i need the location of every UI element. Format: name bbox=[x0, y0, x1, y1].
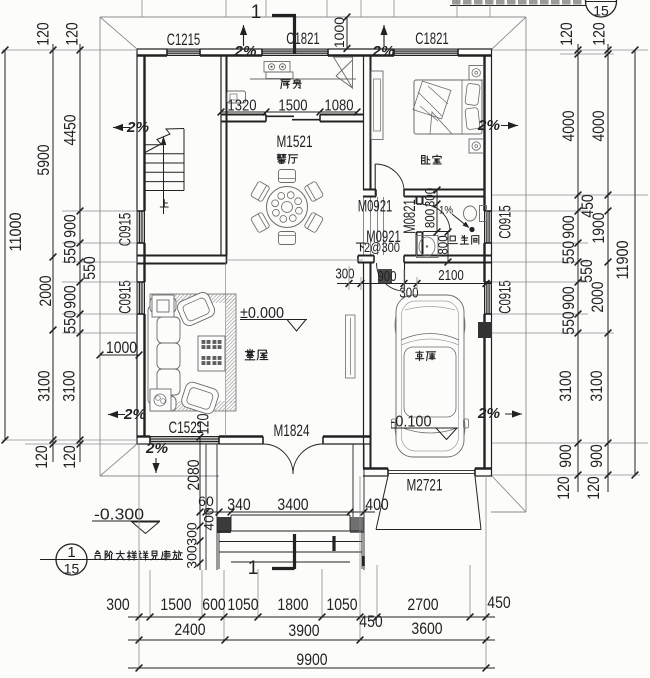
west eave dimension 1000 bbox=[97, 339, 143, 359]
svg-text:15: 15 bbox=[64, 561, 80, 577]
svg-text:2%: 2% bbox=[477, 406, 500, 422]
svg-text:2080: 2080 bbox=[185, 459, 203, 490]
svg-text:M1824: M1824 bbox=[274, 422, 310, 440]
svg-text:9900: 9900 bbox=[296, 651, 327, 669]
left detail dimension chain bbox=[60, 22, 99, 468]
svg-text:1000: 1000 bbox=[332, 17, 347, 48]
roof eave overhang outline bbox=[100, 17, 526, 512]
svg-text:300: 300 bbox=[184, 522, 199, 545]
porch dimension 60/340/3400/400 bbox=[198, 494, 388, 516]
room label 厨房 bbox=[281, 79, 301, 89]
svg-text:550: 550 bbox=[578, 259, 596, 282]
tv bench bbox=[346, 315, 356, 378]
label C1821 bedroom bbox=[415, 30, 449, 48]
svg-text:2%: 2% bbox=[371, 44, 394, 60]
window C1821 kitchen bbox=[262, 49, 328, 56]
svg-text:M0921: M0921 bbox=[358, 197, 393, 215]
column porch right bbox=[350, 517, 364, 533]
svg-text:120: 120 bbox=[61, 445, 79, 468]
plant table bbox=[150, 389, 171, 411]
left dimension chain 11000 bbox=[2, 47, 25, 444]
svg-text:550: 550 bbox=[81, 256, 99, 279]
label M1521 bbox=[277, 133, 313, 151]
slope 2% kitchen roof bbox=[233, 25, 256, 60]
floor boundary line living-dining bbox=[227, 259, 364, 261]
living room rug bbox=[150, 294, 236, 411]
svg-text:5900: 5900 bbox=[35, 144, 53, 175]
label 下2@300 bbox=[356, 240, 400, 255]
svg-text:550: 550 bbox=[61, 310, 79, 333]
dining table with six chairs bbox=[250, 170, 323, 245]
svg-text:C0915: C0915 bbox=[116, 213, 134, 247]
window C0915 west lower bbox=[137, 282, 145, 314]
svg-text:M2721: M2721 bbox=[407, 476, 443, 494]
svg-text:3900: 3900 bbox=[288, 622, 319, 640]
top extension line stubs bbox=[142, 0, 490, 17]
level mark -0.300 terrace bbox=[92, 507, 160, 534]
garage south wall bbox=[363, 469, 492, 477]
room label 餐厅 bbox=[277, 154, 297, 163]
north eave dimension 1000 bbox=[332, 14, 351, 52]
svg-text:1050: 1050 bbox=[326, 596, 357, 614]
svg-text:120: 120 bbox=[33, 445, 51, 468]
svg-text:C1821: C1821 bbox=[286, 30, 320, 48]
svg-text:M0821: M0821 bbox=[401, 199, 419, 234]
door M0921 bedroom leaf and swing bbox=[375, 164, 404, 195]
label C0915 west lower bbox=[116, 280, 134, 314]
kitchen window dimension 1320/1500/1080 bbox=[218, 98, 361, 116]
left dimension chain 5900/2000/3100 bbox=[33, 22, 57, 468]
kitchen cooktop bbox=[264, 62, 293, 79]
svg-text:1320: 1320 bbox=[227, 98, 257, 115]
bottom dimension row 300/1500/600/1050/1800/1050/450/2700/450 bbox=[106, 594, 510, 631]
column east wall bbox=[478, 322, 492, 338]
svg-text:3100: 3100 bbox=[60, 370, 78, 401]
svg-text:1800: 1800 bbox=[277, 596, 308, 614]
slope 2% east garage bbox=[477, 406, 522, 422]
garage driveway ramp bbox=[376, 476, 481, 530]
svg-text:11000: 11000 bbox=[7, 213, 25, 252]
svg-text:900: 900 bbox=[560, 286, 578, 309]
bedroom south wall bbox=[363, 190, 485, 197]
label M0821 rotated bbox=[401, 199, 419, 234]
svg-text:120: 120 bbox=[34, 22, 52, 45]
label C1821 kitchen bbox=[286, 30, 320, 48]
west exterior wall bbox=[137, 49, 145, 444]
svg-text:120: 120 bbox=[63, 22, 81, 45]
label C1215 bbox=[167, 31, 201, 49]
window C1215 bbox=[167, 49, 200, 56]
room label 堂屋 bbox=[245, 349, 268, 360]
window C1521 bbox=[150, 437, 219, 445]
eave line at garage south bbox=[491, 511, 526, 513]
level mark ±0.000 bbox=[240, 305, 307, 331]
svg-text:2400: 2400 bbox=[174, 621, 205, 639]
slope 2% west lower bbox=[108, 407, 146, 423]
kitchen corner cabinet bbox=[334, 57, 353, 88]
slope 2% bedroom roof bbox=[371, 25, 394, 60]
svg-text:1: 1 bbox=[248, 558, 259, 579]
window C0915 west upper bbox=[137, 211, 145, 243]
car in garage bbox=[392, 295, 469, 457]
svg-text:C1215: C1215 bbox=[167, 31, 201, 49]
porch steps bbox=[219, 515, 362, 569]
refrigerator bbox=[227, 91, 246, 103]
svg-text:900: 900 bbox=[61, 214, 79, 237]
section mark 1 bottom bbox=[248, 534, 334, 579]
svg-text:550: 550 bbox=[560, 241, 578, 264]
staircase with up arrow bbox=[145, 129, 184, 215]
window C0915 east garage bbox=[485, 282, 492, 314]
svg-text:C0915: C0915 bbox=[116, 280, 134, 314]
svg-text:450: 450 bbox=[359, 613, 382, 631]
bottom dimension row 2400/3900/3600 bbox=[128, 620, 495, 644]
column porch left bbox=[217, 517, 231, 533]
bathroom dimensions 300/800/800 bbox=[422, 187, 452, 266]
svg-text:1500: 1500 bbox=[160, 596, 191, 614]
svg-text:3400: 3400 bbox=[277, 496, 308, 514]
note 台阶大样详见建施 bbox=[95, 550, 182, 560]
label M1824 bbox=[274, 422, 310, 440]
stairhall south wall bbox=[137, 256, 227, 264]
section mark 1 top bbox=[251, 2, 296, 54]
svg-text:2%: 2% bbox=[145, 441, 168, 457]
right dimension chain 4000/1900/2000/3100/900 bbox=[585, 22, 612, 499]
svg-text:1500: 1500 bbox=[278, 98, 308, 115]
svg-text:60: 60 bbox=[198, 494, 214, 509]
svg-text:300: 300 bbox=[184, 545, 199, 568]
svg-text:300: 300 bbox=[422, 188, 438, 207]
svg-text:1080: 1080 bbox=[324, 98, 354, 115]
porch side walls bbox=[206, 444, 364, 570]
sliding door M1521 bbox=[266, 116, 320, 119]
svg-text:120: 120 bbox=[590, 22, 608, 45]
svg-text:300: 300 bbox=[399, 286, 418, 302]
kitchen south wall bbox=[221, 115, 363, 122]
interior wall stairhall-east bbox=[221, 56, 227, 256]
svg-text:2%: 2% bbox=[123, 407, 146, 423]
svg-text:3600: 3600 bbox=[411, 620, 442, 638]
hall/garage dimension 300/900/300/2100 bbox=[335, 267, 492, 302]
svg-text:340: 340 bbox=[227, 496, 250, 514]
north exterior wall bbox=[137, 49, 492, 56]
toilet bbox=[464, 206, 487, 222]
left margin extension lines bbox=[2, 50, 137, 444]
label C0915 east bath bbox=[496, 205, 514, 239]
detail mark circle 2/15 top right bbox=[450, 0, 617, 19]
bathroom west wall bbox=[417, 197, 423, 255]
svg-text:1: 1 bbox=[251, 2, 262, 23]
door M0821 bathroom leaf and swing bbox=[423, 205, 450, 232]
slope 2% south entry bbox=[145, 441, 168, 473]
upper floor projection line bbox=[225, 264, 227, 437]
coffee table bbox=[198, 336, 225, 371]
svg-text:1%: 1% bbox=[439, 204, 453, 216]
svg-text:400: 400 bbox=[201, 507, 216, 530]
garage north wall bbox=[358, 256, 492, 263]
garage west wall bbox=[364, 263, 371, 469]
room label 卧室 bbox=[422, 155, 442, 164]
svg-text:3100: 3100 bbox=[557, 370, 575, 401]
label C0915 west upper bbox=[116, 213, 134, 247]
porch left dimension 2080/400/300/300 bbox=[184, 434, 216, 570]
label M2721 bbox=[407, 476, 443, 494]
detail mark circle 1/15 bbox=[40, 544, 183, 577]
svg-text:1050: 1050 bbox=[227, 596, 258, 614]
svg-text:800: 800 bbox=[422, 209, 438, 228]
svg-text:2000: 2000 bbox=[589, 281, 607, 312]
svg-text:550: 550 bbox=[61, 240, 79, 263]
svg-text:15: 15 bbox=[593, 3, 609, 19]
section line thick dash at porch right bbox=[362, 556, 365, 566]
label M0921 bedroom bbox=[358, 197, 393, 215]
sofa bbox=[148, 297, 180, 411]
column garage northwest bbox=[378, 269, 392, 283]
corner table with lamp bbox=[152, 295, 174, 317]
svg-text:900: 900 bbox=[560, 215, 578, 238]
door M0921 hall-to-garage leaf and swing bbox=[377, 263, 405, 291]
window C1821 bedroom bbox=[394, 49, 458, 56]
garage door M2721 opening threshold bbox=[388, 471, 475, 474]
hall floor step lines 下2@300 bbox=[364, 197, 384, 255]
svg-text:2%: 2% bbox=[126, 120, 149, 136]
svg-text:800: 800 bbox=[435, 235, 451, 254]
svg-text:300: 300 bbox=[106, 596, 129, 614]
svg-text:C0915: C0915 bbox=[496, 280, 514, 314]
svg-text:2100: 2100 bbox=[438, 268, 464, 284]
hall dim extension bbox=[349, 266, 417, 290]
svg-text:C1821: C1821 bbox=[415, 30, 449, 48]
washbasin bbox=[417, 236, 439, 258]
svg-text:2%: 2% bbox=[477, 118, 500, 134]
interior wall dining-bedroom divider bbox=[364, 56, 371, 190]
svg-text:120: 120 bbox=[555, 476, 573, 499]
floor drain with 1% slope arrow bbox=[439, 204, 475, 232]
svg-text:1000: 1000 bbox=[106, 339, 137, 357]
svg-text:2700: 2700 bbox=[407, 596, 438, 614]
kitchen counter edge bbox=[250, 78, 356, 80]
double door M1824 swing arcs bbox=[263, 444, 323, 474]
nightstand upper bbox=[469, 66, 484, 81]
svg-text:550: 550 bbox=[560, 311, 578, 334]
right dimension chain 11900 bbox=[614, 47, 639, 479]
south wall of living room bbox=[137, 437, 371, 445]
svg-text:300: 300 bbox=[335, 267, 354, 283]
svg-text:M0921: M0921 bbox=[366, 228, 401, 246]
slope 2% west upper bbox=[113, 120, 149, 136]
svg-text:1: 1 bbox=[67, 544, 75, 561]
svg-text:4000: 4000 bbox=[560, 110, 578, 141]
window C0915 east bath bbox=[485, 211, 492, 243]
svg-text:1900: 1900 bbox=[590, 212, 608, 243]
svg-text:2%: 2% bbox=[233, 44, 256, 60]
svg-text:4450: 4450 bbox=[61, 114, 79, 145]
armchair lower bbox=[180, 380, 220, 415]
room label 车库 bbox=[416, 351, 436, 360]
svg-text:4000: 4000 bbox=[590, 110, 608, 141]
svg-text:450: 450 bbox=[487, 594, 510, 612]
armchair upper bbox=[175, 290, 217, 328]
svg-text:120: 120 bbox=[558, 22, 576, 45]
bottom dimension row 9900 bbox=[128, 651, 495, 672]
nightstand lower bbox=[469, 139, 484, 153]
label C0915 east garage bbox=[496, 280, 514, 314]
svg-text:900: 900 bbox=[588, 444, 606, 467]
svg-text:400: 400 bbox=[365, 496, 388, 514]
wardrobe bbox=[371, 71, 383, 140]
svg-text:M1521: M1521 bbox=[277, 133, 313, 151]
double bed bbox=[413, 80, 482, 134]
svg-text:120: 120 bbox=[194, 414, 212, 435]
label M0921 hall bbox=[366, 228, 401, 246]
room label 卫生间 bbox=[449, 235, 479, 244]
svg-text:2000: 2000 bbox=[37, 275, 55, 306]
svg-text:900: 900 bbox=[61, 285, 79, 308]
bottom margin extension lines bbox=[139, 444, 486, 668]
right detail dimension chain bbox=[555, 22, 597, 499]
svg-text:120: 120 bbox=[585, 476, 603, 499]
east exterior wall bbox=[485, 49, 492, 476]
svg-text:900: 900 bbox=[557, 444, 575, 467]
svg-text:3100: 3100 bbox=[35, 370, 53, 401]
svg-text:C0915: C0915 bbox=[496, 205, 514, 239]
svg-text:3100: 3100 bbox=[588, 370, 606, 401]
stair label 上 bbox=[160, 200, 168, 207]
svg-text:900: 900 bbox=[377, 269, 396, 285]
svg-text:11900: 11900 bbox=[614, 241, 632, 280]
level mark -0.100 garage bbox=[391, 414, 459, 440]
svg-text:600: 600 bbox=[202, 596, 225, 614]
slope 2% east bedroom bbox=[477, 118, 518, 134]
right margin extension lines bbox=[492, 50, 648, 475]
label C1521 bbox=[169, 414, 213, 437]
